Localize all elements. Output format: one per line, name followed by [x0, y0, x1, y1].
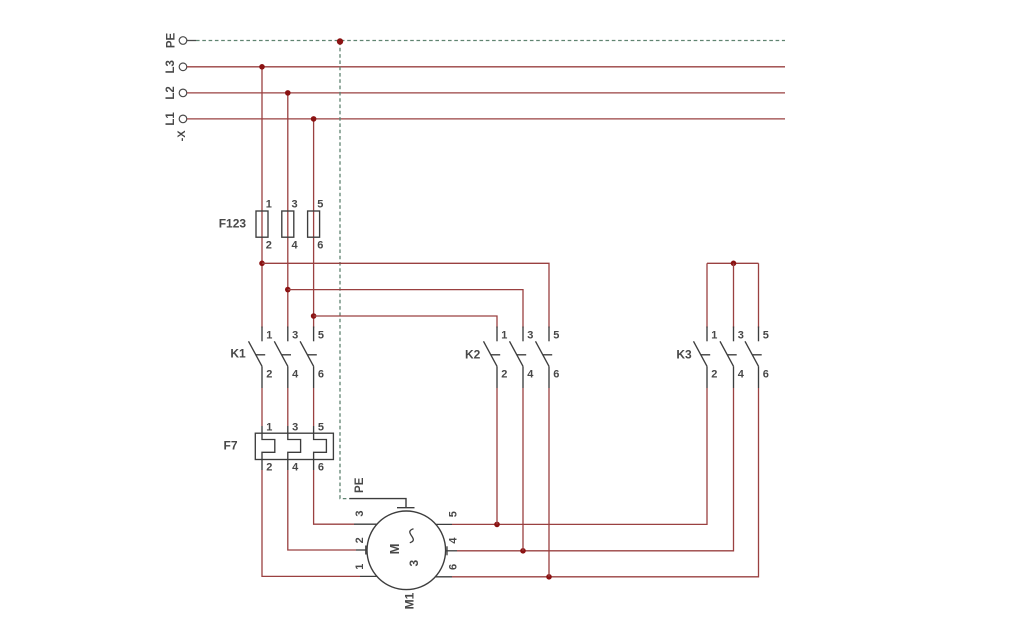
svg-text:1: 1 — [501, 330, 507, 342]
terminal circle L3 — [179, 63, 187, 71]
svg-text:3: 3 — [354, 510, 366, 516]
wire motor 4 to K3 pole 4 — [457, 388, 734, 551]
svg-text:2: 2 — [266, 368, 272, 380]
svg-text:3: 3 — [407, 559, 421, 566]
wire feed to K2 pole 3 — [288, 290, 523, 328]
junction dot K2 pole4 / wire4 — [520, 548, 526, 554]
wire L3 rail — [187, 66, 785, 68]
junction dot node A (L3 after fuse) — [259, 261, 265, 267]
motor right terminal 4 lead (black) — [446, 550, 457, 552]
contactor K3 pole 1-2 — [694, 327, 711, 389]
contactor K2 pole 5-6 — [536, 327, 553, 389]
contactor K2 pole 1-2 — [484, 327, 501, 389]
svg-text:3: 3 — [292, 330, 298, 342]
terminal circle L2 — [179, 89, 187, 97]
terminal circle L1 — [179, 115, 187, 123]
svg-text:4: 4 — [738, 368, 745, 380]
motor M1 terminal 1 lead (black) — [360, 575, 377, 577]
svg-text:3: 3 — [292, 198, 298, 210]
wire K2 pole2 down — [496, 388, 498, 524]
svg-text:5: 5 — [318, 421, 324, 433]
svg-text:1: 1 — [354, 564, 366, 570]
svg-text:2: 2 — [266, 240, 272, 252]
junction dot K2 pole6 / wire6 — [546, 574, 552, 580]
svg-text:4: 4 — [527, 368, 534, 380]
fuse F123 pole 5-6 body — [308, 211, 320, 237]
wire F7 pole2 to motor U1 — [262, 470, 360, 576]
contactor K1 pole 3-4 — [274, 327, 291, 389]
wire K3 top bus — [707, 262, 759, 264]
svg-text:K3: K3 — [676, 347, 692, 361]
wire motor 6 to K3 pole 6 — [452, 388, 759, 577]
svg-text:1: 1 — [266, 198, 272, 210]
svg-text:5: 5 — [447, 511, 459, 517]
svg-text:K2: K2 — [465, 347, 481, 361]
junction dot L1 tap — [311, 116, 317, 122]
wire L1 drop to fuse 5 — [313, 119, 315, 328]
wire L1 rail — [187, 118, 785, 120]
contactor K3 pole 3-4 — [720, 327, 737, 389]
svg-text:4: 4 — [292, 368, 299, 380]
wire L3 drop to fuse 1 — [261, 67, 263, 328]
svg-text:1: 1 — [266, 330, 272, 342]
wire feed to K2 pole 5 — [262, 263, 549, 327]
junction dot L2 tap — [285, 90, 291, 96]
junction dot node C (L1 after fuse) — [311, 313, 317, 319]
motor M1 PE lead — [350, 499, 407, 508]
svg-text:5: 5 — [318, 330, 324, 342]
contactor K1 pole 5-6 — [300, 327, 317, 389]
overload relay F7 heater pole 5-6 — [314, 426, 327, 470]
motor M1 body circle — [367, 511, 446, 590]
svg-text:3: 3 — [738, 330, 744, 342]
fuse F123 pole 3-4 body — [282, 211, 294, 237]
motor right terminal 4 tick — [446, 546, 448, 555]
svg-text:L2: L2 — [165, 86, 177, 99]
contactor K3 pole 5-6 — [745, 327, 762, 389]
svg-text:1: 1 — [711, 330, 717, 342]
motor M1 terminal 3 lead (black) — [354, 523, 377, 525]
svg-text:-X: -X — [176, 130, 188, 142]
wire motor 5 to K3 pole 2 — [452, 388, 707, 524]
overload relay F7 heater pole 1-2 — [262, 426, 275, 470]
wire feed to K2 pole 1 — [314, 316, 497, 328]
contactor K1 pole 1-2 — [249, 327, 266, 389]
svg-text:6: 6 — [447, 564, 459, 570]
svg-text:1: 1 — [266, 421, 272, 433]
svg-text:K1: K1 — [230, 347, 246, 361]
overload relay F7 box — [255, 433, 333, 459]
svg-text:3: 3 — [292, 421, 298, 433]
terminal circle PE — [179, 37, 187, 45]
svg-text:6: 6 — [318, 461, 324, 473]
svg-text:PE: PE — [354, 477, 366, 493]
motor sine symbol — [410, 529, 414, 543]
junction dot PE tap — [337, 38, 343, 44]
svg-text:6: 6 — [553, 368, 559, 380]
svg-text:F123: F123 — [219, 217, 247, 231]
motor right terminal 6 lead (black) — [435, 576, 452, 578]
wire PE vertical drop (dashed green) — [340, 42, 350, 499]
svg-text:M1: M1 — [402, 592, 416, 609]
motor M1 terminal 2 lead (black) — [356, 549, 367, 551]
overload relay F7 heater pole 3-4 — [288, 426, 301, 470]
svg-text:6: 6 — [318, 368, 324, 380]
svg-text:6: 6 — [317, 240, 323, 252]
wire K1 pole2 to F7 — [261, 388, 263, 426]
wire K3 pole1 drop — [706, 263, 708, 327]
wire PE stub after terminal — [187, 40, 196, 42]
svg-text:PE: PE — [166, 33, 178, 49]
svg-text:3: 3 — [527, 330, 533, 342]
junction dot K2 pole2 / wire5 — [494, 522, 500, 528]
junction dot L3 tap — [259, 64, 265, 70]
motor right terminal 5 lead (black) — [435, 523, 452, 525]
wire L2 drop to fuse 3 — [287, 93, 289, 328]
svg-text:2: 2 — [501, 368, 507, 380]
wire K1 pole6 to F7 — [313, 388, 315, 426]
svg-text:4: 4 — [292, 461, 299, 473]
svg-text:5: 5 — [763, 330, 769, 342]
svg-text:5: 5 — [553, 330, 559, 342]
svg-text:L1: L1 — [165, 112, 177, 126]
motor M1 terminal 2 tick — [365, 546, 367, 555]
junction dot node B (L2 after fuse) — [285, 287, 291, 293]
wire PE rail (dashed green) — [196, 40, 785, 42]
fuse F123 pole 1-2 body — [256, 211, 268, 237]
svg-text:2: 2 — [354, 537, 366, 543]
svg-text:2: 2 — [711, 368, 717, 380]
wire F7 pole6 to motor W1 — [314, 470, 354, 524]
svg-text:F7: F7 — [223, 439, 237, 453]
wire K2 pole6 down — [548, 388, 550, 577]
svg-text:2: 2 — [266, 461, 272, 473]
wire K2 pole4 down — [522, 388, 524, 551]
svg-text:L3: L3 — [165, 60, 177, 73]
junction dot K3 bus — [731, 261, 737, 267]
wire K3 pole5 drop — [758, 263, 760, 327]
wire L2 rail — [187, 92, 785, 94]
wire K1 pole4 to F7 — [287, 388, 289, 426]
svg-text:6: 6 — [763, 368, 769, 380]
svg-text:4: 4 — [292, 240, 299, 252]
wire K3 pole3 drop — [733, 263, 735, 327]
contactor K2 pole 3-4 — [510, 327, 527, 389]
motor M1 PE terminal tick — [397, 507, 415, 509]
wire F7 pole4 to motor V1 — [288, 470, 356, 550]
svg-text:4: 4 — [447, 537, 459, 544]
svg-text:M: M — [387, 544, 402, 555]
svg-text:5: 5 — [317, 198, 323, 210]
